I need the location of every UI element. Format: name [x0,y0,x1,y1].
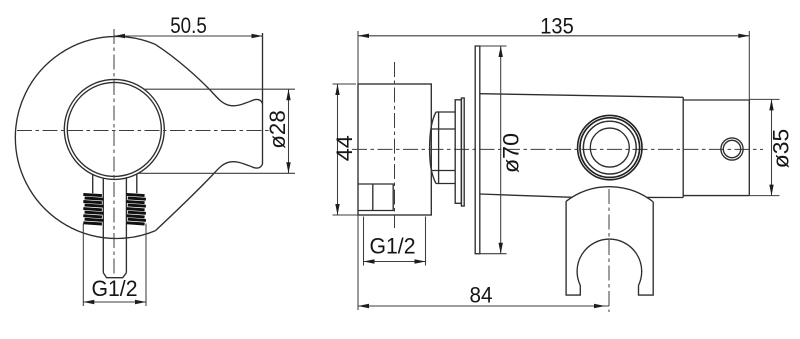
left view: thread root line left [92,175,94,194]
left view: holder cup end face / 50.5 right extension [262,33,264,164]
dimension 135 right arrow [738,34,749,38]
dimension o28 bottom arrow [286,162,290,173]
left view: vertical centerline [113,29,115,277]
dimension 44 line [337,84,339,215]
right view: inlet block body [358,84,431,215]
right view G1/2 dimension line [364,261,426,263]
dimension 84 left extension line [357,215,359,310]
svg-text:G1/2: G1/2 [370,234,416,259]
dimension o70 top arrow [499,46,503,57]
dimension o70 bottom extension line [475,253,506,255]
left view: horizontal centerline [17,130,272,132]
dimension o28 top extension line [144,88,295,90]
left view: holder cup bottom profile [156,162,263,231]
right view: holder fork outline [566,201,653,295]
left view: wall flange circle [15,37,155,239]
left view G1/2 right arrow [135,300,146,304]
right view: horizontal centerline [352,148,763,150]
left view: pipe wall left [102,178,104,273]
left view G1/2 left extension line [82,224,84,307]
left view: holder cup top profile [155,44,263,106]
svg-text:50.5: 50.5 [170,13,207,38]
dimension o28 bottom extension line [138,172,295,174]
dimension 135 left arrow [358,34,369,38]
dimension o70 top extension line [475,45,506,47]
dimension o70 line [500,46,502,254]
dimension o35 bottom extension line [749,195,779,197]
left view: pipe bottom chamfer [103,273,126,278]
left view: holder socket inner circle [67,82,161,176]
right view: knob outer circle [578,115,642,179]
svg-text:ø35: ø35 [769,129,794,169]
left view: thread block left [83,194,103,224]
svg-text:84: 84 [470,283,493,308]
dimension 50.5 line [114,35,263,37]
dimension o35 top arrow [769,99,773,110]
right view: knob ring circle [580,118,640,178]
left view G1/2 left arrow [83,300,94,304]
svg-text:44: 44 [332,135,357,161]
left view G1/2 right extension line [145,224,147,307]
right view G1/2 right arrow [415,259,426,263]
dimension 84 left arrow [358,304,369,308]
right view: wall flange plate [475,46,480,254]
right view: connector nut step lines [431,129,455,171]
svg-text:G1/2: G1/2 [92,276,138,301]
dimension o35 top extension line [749,98,779,100]
right view G1/2 left arrow [364,259,375,263]
right view: body bottom edge right segment [647,196,683,198]
right view: body top edge [480,94,683,98]
right view: second washer ring [461,98,464,206]
dimension 84 right arrow [594,304,605,308]
dimension 44 top arrow [335,84,339,95]
left view: thread block right [126,194,145,224]
left view: thread root line right [136,174,138,193]
right view: holder fork circular cutout [577,239,642,285]
right view: holder fork dome arc [566,187,653,202]
dimension 135 left extension line [357,31,359,84]
left view: pipe wall right [125,178,127,273]
right view: diverter button inner circle [723,140,740,157]
svg-text:ø28: ø28 [265,110,290,149]
right view G1/2 left extension line [363,217,365,266]
dimension 44 top extension line [333,83,357,85]
dimension o35 line [771,99,773,195]
right view G1/2 right extension line [425,217,427,266]
right view: knob inner circle [590,128,629,167]
dimension 50.5 left arrow [114,34,125,38]
dimension 135 line [358,35,749,37]
dimension 135 right extension line [748,31,750,100]
dimension 84 line [358,305,609,307]
left view G1/2 dimension line [83,301,146,303]
dimension o35 bottom arrow [769,185,773,196]
dimension 44 bottom extension line [333,214,359,216]
right view: block vertical centerline [394,62,396,228]
left view: holder socket outer circle [64,79,164,179]
right view: connector nut inner vertical [438,112,440,184]
right view: inlet block inner rect divider [372,184,374,211]
dimension o70 bottom arrow [499,243,503,254]
dimension o28 line [288,89,290,173]
svg-text:ø70: ø70 [499,133,524,173]
svg-text:135: 135 [540,14,574,39]
right view: connector nut outline [436,112,455,184]
right view: connector nut barrel curve [430,112,436,184]
right view: diverter button outer circle [721,138,743,160]
dimension 50.5 right arrow [252,34,263,38]
dimension 44 bottom arrow [335,204,339,215]
right view: body bottom edge left segment [480,194,573,197]
right view: end cap outline [683,100,749,196]
right view: washer ring [455,100,461,204]
right view: body/cap boundary [682,97,684,197]
right view: fork vertical centerline [608,189,610,312]
dimension o28 top arrow [286,89,290,100]
right view: inlet block inner rect [358,184,393,211]
